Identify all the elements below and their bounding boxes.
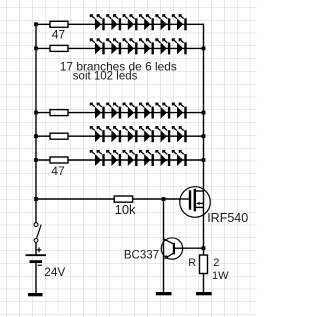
svg-text:10k: 10k — [115, 202, 136, 217]
led r2-6 — [172, 39, 186, 55]
resistor row4 — [50, 133, 68, 139]
svg-text:IRF540: IRF540 — [207, 211, 248, 225]
led r1-5 — [156, 15, 170, 31]
wire R to ground — [203, 274, 205, 293]
switch S1 — [34, 223, 41, 243]
led r1-1 — [90, 15, 104, 31]
led r1-4 — [140, 15, 154, 31]
node row1-left — [34, 22, 38, 26]
wire 10k row — [36, 198, 190, 200]
node row2-left — [34, 47, 38, 51]
led r5-1 — [90, 151, 104, 167]
led r5-6 — [172, 151, 186, 167]
node source-base-R — [202, 246, 206, 250]
svg-text:soit 102 leds: soit 102 leds — [73, 71, 138, 83]
led r3-4 — [140, 103, 154, 119]
led r4-5 — [156, 127, 170, 143]
battery 24V — [26, 243, 47, 294]
node row4-right — [202, 134, 206, 138]
led r2-2 — [107, 39, 121, 55]
resistor 10k — [114, 196, 132, 202]
svg-text:2: 2 — [213, 257, 219, 269]
wire row4 — [36, 135, 204, 137]
node row3-right — [202, 111, 206, 115]
led r2-3 — [123, 39, 137, 55]
led r4-3 — [123, 127, 137, 143]
wire row5 — [36, 159, 204, 161]
led r2-5 — [156, 39, 170, 55]
resistor 47 row5 — [50, 157, 68, 163]
led r3-6 — [172, 103, 186, 119]
led r3-5 — [156, 103, 170, 119]
node gate-base — [162, 197, 166, 201]
resistor R 2 1W — [200, 255, 208, 274]
led r2-1 — [90, 39, 104, 55]
transistor BC337 — [161, 199, 182, 293]
mosfet Q IRF540 — [180, 187, 211, 218]
node 10k-tap — [34, 197, 38, 201]
resistor row2 — [50, 45, 68, 51]
svg-text:24V: 24V — [44, 265, 65, 279]
led r1-3 — [123, 15, 137, 31]
wire row2 — [36, 47, 204, 49]
svg-text:47: 47 — [52, 28, 66, 42]
wire right rail — [203, 24, 205, 215]
led r3-1 — [90, 103, 104, 119]
ground R — [196, 292, 212, 295]
led r5-5 — [156, 151, 170, 167]
svg-text:1W: 1W — [212, 270, 229, 282]
svg-text:R: R — [188, 257, 196, 269]
node row3-left — [34, 111, 38, 115]
led r4-1 — [90, 127, 104, 143]
led r2-4 — [140, 39, 154, 55]
led r1-6 — [172, 15, 186, 31]
node row5-left — [34, 158, 38, 162]
node row4-left — [34, 134, 38, 138]
led r3-2 — [107, 103, 121, 119]
wire mosfet source to node — [203, 215, 205, 255]
wire row3 — [36, 112, 204, 114]
node row2-right — [202, 47, 206, 51]
svg-text:BC337: BC337 — [124, 250, 159, 262]
resistor row3 — [50, 110, 68, 116]
svg-text:47: 47 — [51, 164, 65, 178]
led r4-6 — [172, 127, 186, 143]
led r5-4 — [140, 151, 154, 167]
led r4-4 — [140, 127, 154, 143]
wire base to node — [175, 247, 204, 249]
resistor 47 row1 — [50, 21, 68, 27]
wire row1 — [36, 23, 204, 25]
led r5-2 — [107, 151, 121, 167]
led r4-2 — [107, 127, 121, 143]
led r1-2 — [107, 15, 121, 31]
node row5-right — [202, 158, 206, 162]
wire left rail — [35, 24, 37, 223]
ground BC337 emitter — [156, 292, 172, 295]
ground battery — [28, 293, 43, 296]
led r5-3 — [123, 151, 137, 167]
led r3-3 — [123, 103, 137, 119]
junction dots left rail — [34, 22, 205, 250]
